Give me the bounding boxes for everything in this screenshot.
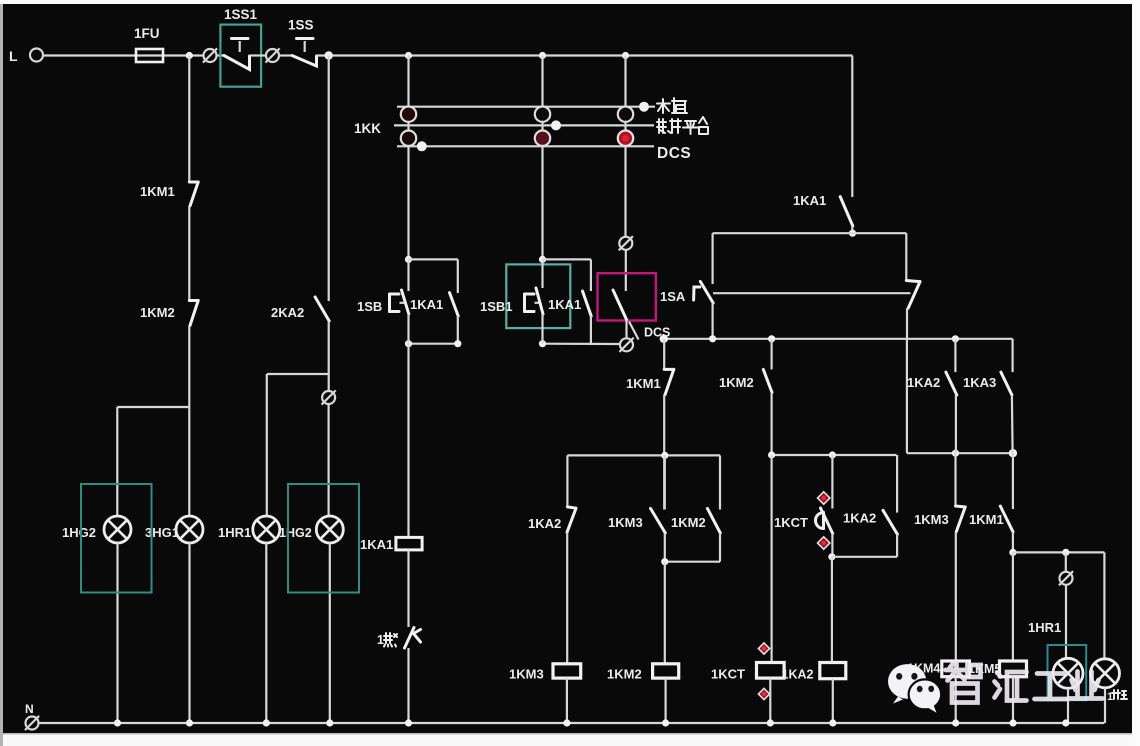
red diamond below 1KCT coil [758, 688, 769, 699]
contact 1KA2 lower blade [883, 510, 897, 534]
coil 1KA1 [396, 537, 422, 550]
wire blade to lower circle-slash [625, 320, 627, 338]
terminal circle-slash left of 1SS1 [203, 48, 217, 62]
label 1SB1 [480, 299, 513, 314]
terminal circle-slash right lamp [1059, 571, 1073, 585]
wire jog down to coil 1KA2 [831, 557, 833, 663]
lamp 3HG1 [176, 516, 203, 543]
terminal L circle [30, 49, 43, 62]
wire rail552 to circle-slash [1065, 552, 1067, 571]
svg-text:1KM3: 1KM3 [509, 667, 544, 682]
contact 1KM3 below rail B2 (NO tick) [956, 453, 966, 532]
junction dot rail B2 x955 [952, 450, 959, 457]
svg-text:1KM2: 1KM2 [140, 305, 175, 320]
label 1KA1 group2 [548, 297, 581, 312]
contact 1SA blade [700, 281, 713, 303]
1KK selected dot row2 [551, 120, 561, 130]
group2 bottom rail to DCS terminal [543, 343, 620, 345]
svg-text:1SB: 1SB [357, 299, 382, 314]
1KK contact circle r1c2 [535, 107, 550, 122]
lamp 1HG2 fourth [316, 516, 343, 543]
contact 1KM1 (NO) [189, 182, 198, 206]
wire thermal to bottom bus [407, 648, 409, 723]
svg-text:1HG2: 1HG2 [62, 525, 96, 540]
net label benju (CJK) row1 [657, 98, 687, 113]
junction dot group1 bottom right [454, 340, 461, 347]
svg-text:1SB1: 1SB1 [480, 299, 513, 314]
svg-text:1KK: 1KK [354, 121, 381, 136]
wire lamp 3HG1 to bottom bus [188, 543, 190, 723]
svg-text:1KA2: 1KA2 [907, 375, 940, 390]
branch wire to 1HR1 lamp [267, 374, 329, 516]
red diamond above 1KCT coil [758, 643, 769, 654]
coil 1KM5 [1000, 661, 1027, 677]
contact thermal 1RJ [405, 628, 421, 649]
coil 1KCT [757, 663, 785, 679]
svg-text:1KM3: 1KM3 [914, 512, 949, 527]
test frame box right lamp [1048, 645, 1087, 700]
test frame box around 1SB1 [506, 264, 570, 328]
wire lamp 1HG2b to bottom bus [329, 543, 331, 723]
svg-text:DCS: DCS [657, 145, 691, 162]
pushbutton 1SB1 operator [525, 294, 539, 312]
wire x408 rows span [407, 56, 409, 260]
label 1KM1 [140, 184, 175, 199]
label 1SB [357, 299, 382, 314]
lamp right inner [1053, 658, 1083, 688]
jog rail y557 [832, 556, 897, 558]
label 1KA1 coil [360, 537, 393, 552]
wire 1SA lower to bus [711, 303, 713, 339]
junction dot bus x771 [768, 335, 775, 342]
svg-text:1KA1: 1KA1 [360, 537, 393, 552]
1KK contact circle r2c2 [535, 131, 550, 146]
label 1KM4 coil [907, 662, 940, 676]
junction dot at x408 top rail [405, 52, 412, 59]
1KK selected dot row1 [639, 102, 649, 112]
wire coil 1KA1 down to thermal contact [407, 550, 409, 627]
wire 1SS1 to circle-slash [250, 54, 266, 56]
wire x625 rows span [624, 56, 626, 147]
junction dot rail B2 x1012 [1009, 449, 1017, 457]
svg-text:2KA2: 2KA2 [271, 305, 304, 320]
wire circle-slash to lamp 1HG2b [328, 405, 330, 517]
contact 1KM3 blade below rail A [651, 455, 666, 533]
label 1KA3 [963, 375, 996, 390]
contact 2KA2 (NC lean) [315, 297, 329, 321]
contact 1KA1 group2 blade [583, 291, 592, 316]
page left border strip [0, 0, 3, 746]
fuse 1FU label [134, 26, 160, 41]
label 1KM3 contact below rail A [608, 515, 643, 530]
rail B2 wire [907, 452, 1013, 454]
label DCS magenta [644, 326, 670, 340]
branch rail to 1KA2 left contact [566, 455, 568, 507]
wire jog down to coil 1KM2 [664, 562, 666, 664]
group2 right branch upper wire [590, 259, 592, 291]
label 1SS [288, 18, 314, 33]
1KK contact circle r1c3 [618, 107, 633, 122]
label 1KA1 right [793, 193, 826, 208]
label 1HR1 [218, 525, 251, 540]
junction dot at x328 top rail [325, 51, 333, 59]
label 1KM1 below rail B2 [969, 512, 1004, 527]
junction dot x408 group1 top [405, 256, 412, 263]
junction dots bottom bus [114, 719, 1070, 726]
contact 1KA3 blade [1001, 372, 1012, 395]
watermark text hui (CJK) [995, 672, 1027, 701]
switch 1SS1 knife blade [224, 56, 250, 70]
page right border strip [1132, 0, 1140, 746]
node N label [25, 702, 34, 716]
junction dot rail B1 x771 [768, 451, 775, 458]
wire 1KM2 contact down to jog [665, 533, 720, 562]
contact 1KM2 blade below rail A [707, 508, 720, 533]
bottom bus wire [39, 722, 1104, 724]
label 1KCT contact [774, 515, 808, 530]
svg-text:1KA2: 1KA2 [782, 668, 814, 682]
lamp 1HR1 [253, 516, 280, 543]
wire 1KA2 to coil 1KM3 [566, 532, 568, 664]
contact 1KM2 middle blade [763, 369, 772, 392]
label 1KK [354, 121, 381, 136]
wire x408 to coil 1KA1 [407, 344, 409, 538]
net label DCS row3 [657, 145, 691, 162]
wire 1SA branch upper [711, 233, 713, 284]
contact 1SB1 blade [536, 259, 543, 314]
junction dot bus x664 [660, 335, 668, 343]
contact DCS blade inside box [613, 290, 627, 320]
svg-text:1KM2: 1KM2 [607, 667, 642, 682]
wire 1KA3 contact to rail B2 [1011, 395, 1014, 453]
label 1KA2 lower [843, 511, 876, 526]
label 1SS1 [224, 7, 258, 22]
coil 1KA2 [820, 663, 846, 679]
changeover contact tick and blade [906, 281, 920, 309]
wire coil 1KA2 to bus [832, 679, 834, 723]
wire bus to 1KM1 contact x664 [663, 339, 665, 370]
wire into DCS box [625, 250, 627, 291]
svg-text:1: 1 [377, 633, 384, 647]
watermark text zhi (CJK) [946, 663, 981, 703]
1KK row1 line [397, 106, 655, 108]
branch rail to 1HG2 lamp [117, 407, 189, 516]
svg-text:1KA2: 1KA2 [528, 516, 561, 531]
selector frame box around 1SS1 [220, 25, 261, 87]
changeover lower wire to bus [906, 308, 908, 339]
wire x771 down to coil 1KCT [770, 455, 772, 663]
switch 1SA operator bracket [694, 287, 700, 300]
contact 1KA2 left (NO tick) [567, 507, 576, 532]
switch 1SS knife blade [292, 56, 317, 67]
contact 1SB blade [402, 259, 409, 314]
watermark text gong (CJK) [1035, 674, 1067, 700]
svg-text:1HG2: 1HG2 [279, 526, 312, 540]
junction dot x542 group2 top [539, 256, 546, 263]
label 1KM2 middle [719, 375, 754, 390]
wire x852 down from top rail [851, 56, 853, 198]
junction dot 1KA1 rail233 [849, 230, 856, 237]
red diamond above 1KCT contact [818, 492, 830, 504]
1KK contact circle r1c1 [401, 107, 416, 122]
wire to 1SS [279, 54, 292, 56]
label 3HG1 [145, 525, 179, 540]
branch rail B1 to 1KA2 lower contact [896, 455, 898, 513]
wire rail552 corner down x1104 [1103, 552, 1105, 658]
label 1KA1 group1 [410, 297, 443, 312]
wire bus to 1KA2 top contact x955 [954, 339, 956, 372]
svg-text:1KA3: 1KA3 [963, 375, 996, 390]
junction dot rail B1 x832 [829, 451, 836, 458]
svg-text:1KA1: 1KA1 [793, 193, 826, 208]
contact 1KM2 (NO) [189, 301, 198, 326]
label 1KM3 coil [509, 667, 544, 682]
svg-text:1HR1: 1HR1 [218, 525, 251, 540]
coil 1KM4 [942, 661, 970, 677]
switch 1SS handle T [297, 39, 314, 53]
svg-text:1KCT: 1KCT [774, 515, 808, 530]
label 1KM2 coil [607, 667, 642, 682]
terminal circle-slash below 2KA2 [322, 374, 336, 405]
coil 1KM3 [553, 664, 581, 678]
wire coil 1KM3 to bus [566, 678, 568, 723]
contact 1KA2 top right blade [946, 372, 957, 395]
svg-text:1KA1: 1KA1 [410, 297, 443, 312]
label 1HR1 right [1028, 620, 1061, 635]
junction dot rail552 x1065 [1062, 549, 1069, 556]
wire 1KM3 contact down [664, 533, 666, 562]
contact 1KA1 right blade [840, 197, 853, 226]
top rail wire 1SS to 1KA1 branch [317, 54, 852, 56]
contact 1KM1 below rail B2 blade [1000, 453, 1013, 532]
wire 1KM1 down to rail552 [1012, 532, 1014, 553]
contact 1KCT blade [821, 508, 833, 534]
svg-text:1KM2: 1KM2 [671, 515, 706, 530]
wire x542 rows span [541, 56, 543, 260]
label 1KM3 below rail B2 [914, 512, 949, 527]
junction dot bus x955 [952, 335, 959, 342]
svg-text:1KM2: 1KM2 [719, 375, 754, 390]
terminal circle-slash above DCS box [619, 146, 633, 250]
wire 1KM3 down to coil 1KM4 [955, 532, 957, 661]
DCS pointer diagonal magenta [629, 322, 639, 340]
wire 1KA1 to rail233 [851, 226, 853, 233]
wire x1012 down to coil 1KM5 [1012, 552, 1014, 661]
group2 right branch lower wire [590, 316, 592, 344]
wire 1KM2 down to lamp 3HG1 [188, 326, 190, 517]
svg-text:1SA: 1SA [660, 289, 686, 304]
group2 top rail [543, 258, 591, 260]
net label row2 (CJK 4 chars) [657, 117, 708, 134]
wire x189 down to 1KM1 contact [188, 56, 190, 183]
wire coil 1KM4 to bus [955, 677, 957, 723]
junction dot rail552 x1012 [1009, 549, 1016, 556]
junction dot group1 bottom left [405, 340, 412, 347]
wire coil 1KM2 to bus [664, 678, 666, 723]
junction dot rail A x664 [661, 452, 668, 459]
svg-text:1KM1: 1KM1 [140, 184, 175, 199]
wire lamp 1HR1 to bottom bus [265, 543, 267, 723]
node L label [9, 48, 18, 64]
svg-text:3HG1: 3HG1 [145, 525, 179, 540]
label 1RJ thermal (CJK) [377, 633, 397, 647]
svg-text:1KA2: 1KA2 [843, 511, 876, 526]
group1 bottom rail [409, 343, 458, 345]
wire 1KCT contact to jog556 [831, 534, 833, 557]
lamp 1HG2 [104, 516, 131, 543]
svg-text:1KA1: 1KA1 [548, 297, 581, 312]
wire coil 1KM5 to bus [1012, 677, 1014, 723]
page bottom border strip [3, 733, 1132, 746]
contact 1KM1 middle (NO) [664, 369, 674, 394]
lamp right outer [1091, 659, 1120, 688]
label 1SA [660, 289, 686, 304]
svg-text:1KCT: 1KCT [711, 667, 745, 682]
wire 2KA2 to T junction [328, 321, 330, 374]
bus wire y339 [664, 338, 1013, 340]
wire coil 1KCT to bus [769, 678, 771, 723]
changeover contact upper wire x906 [905, 233, 907, 280]
label 1KM2 [140, 305, 175, 320]
wire circle-slash to lamp 1HR right [1065, 585, 1067, 658]
wire 1SB1 lower to bottom rail [541, 314, 543, 344]
DCS select frame box magenta [598, 273, 656, 320]
group1 right branch lower wire [457, 316, 459, 344]
fuse 1FU [136, 49, 203, 62]
label 1KM2 below rail A [671, 515, 706, 530]
pushbutton 1SB operator [390, 294, 405, 312]
watermark wechat icon [888, 664, 941, 713]
wire to 1SS1 [217, 54, 224, 56]
1KK row2 line [394, 124, 654, 126]
wire 1KA2 lower to jog557 [896, 534, 898, 557]
terminal circle-slash N [25, 716, 39, 730]
junction dot bus x712 [709, 335, 716, 342]
wire L to fuse [43, 54, 137, 56]
junction dot at x542 top rail [539, 52, 546, 59]
group1 top rail [409, 258, 458, 260]
rail B1 wire [772, 454, 897, 456]
wire 1KA2 contact to rail B2 [955, 395, 957, 453]
label 1KM1 middle [626, 376, 661, 391]
group1 right branch upper wire [457, 259, 459, 293]
svg-text:1SS1: 1SS1 [224, 7, 258, 22]
wire lamp 1HG2 to bottom bus [116, 543, 118, 723]
label 1KA2 coil [782, 668, 814, 682]
svg-text:1HR1: 1HR1 [1028, 620, 1061, 635]
branch rail to 1KM2 right contact [719, 455, 721, 509]
1KK contact circle r2c1 [401, 131, 416, 146]
junction dot jog556 [828, 553, 835, 560]
junction dot at x625 top rail [622, 52, 629, 59]
rail y293 from 1SA to changeover [713, 292, 911, 294]
wire 1KM2 to rail B1 [770, 393, 772, 456]
svg-text:1KM3: 1KM3 [608, 515, 643, 530]
1KK row3 line [397, 145, 654, 147]
svg-text:1KM1: 1KM1 [969, 512, 1004, 527]
label 1HG2 fourth lamp [279, 526, 312, 540]
red diamond below 1KCT contact [818, 537, 830, 549]
label 1KA2 top right [907, 375, 940, 390]
wire x832 down to 1KCT contact [831, 455, 833, 509]
coil 1KM2 [653, 664, 679, 678]
terminal circle-slash DCS output [619, 338, 633, 352]
page top border strip [0, 0, 1140, 4]
label 2KA2 [271, 305, 304, 320]
junction dot at x189 top rail [186, 52, 193, 59]
junction dot jog x664 [661, 558, 668, 565]
1KK contact circle r2c3 red [618, 131, 633, 146]
test frame box around lamp 1HG2 [81, 484, 152, 593]
label 1KA2 left [528, 516, 561, 531]
label 1HG2 first lamp [62, 525, 96, 540]
label 1HG right small [1107, 690, 1127, 703]
svg-text:1SS: 1SS [288, 18, 314, 33]
label 1KM5 coil [968, 662, 1001, 676]
wire 1SB lower to bottom rail [407, 314, 409, 344]
1KK selected dot row3 [417, 141, 427, 151]
wire right lamp to bus [1067, 689, 1069, 724]
svg-text:L: L [9, 48, 18, 64]
wire bus to 1KM2 contact x771 [770, 339, 772, 370]
wire x328 down to 2KA2 [328, 56, 330, 302]
rail y233 [713, 232, 907, 234]
svg-text:1KM1: 1KM1 [626, 376, 661, 391]
svg-text:N: N [25, 702, 34, 716]
contact 1KCT delayed operator arc [816, 513, 824, 529]
switch 1SS1 handle T [232, 39, 249, 53]
wire 1KM1 to 1KM2 [188, 206, 190, 301]
terminal circle-slash right of 1SS1 [265, 48, 279, 62]
contact 1KA1 group1 blade [450, 293, 459, 316]
wire bus corner to 1KA3 contact x1012 [1011, 339, 1013, 372]
junction dot group2 bottom left [539, 340, 546, 347]
wire right outer lamp to bus [1104, 688, 1106, 723]
wire changeover to rail B2 x906 [906, 339, 908, 453]
wire 1KM1 to rail A [663, 395, 665, 510]
label 1KCT coil [711, 667, 745, 682]
watermark text ye (CJK) [1068, 672, 1103, 699]
rail A wire [567, 454, 720, 456]
rail y552 to right lamps [1013, 551, 1105, 553]
svg-text:1FU: 1FU [134, 26, 160, 41]
test frame box around lamp 1HG2 fourth [288, 484, 359, 593]
